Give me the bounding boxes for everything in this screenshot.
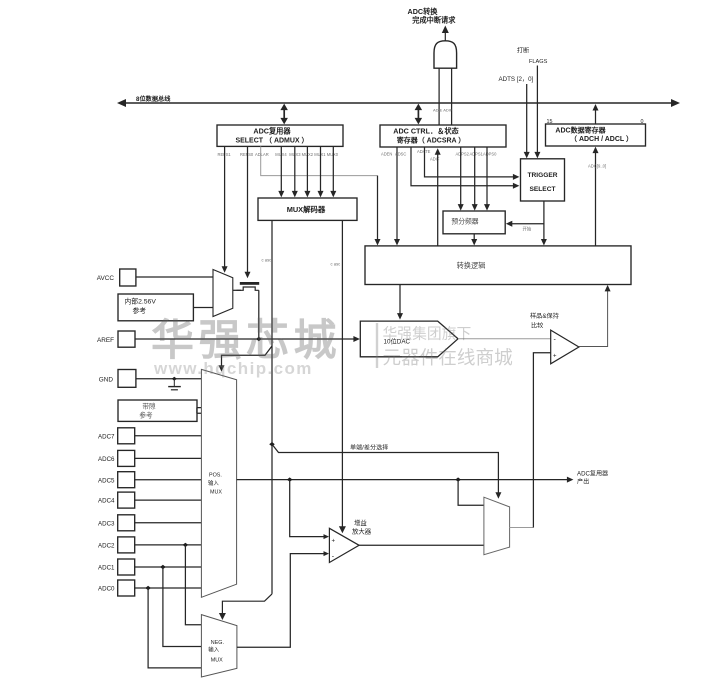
pin ADC3 box	[118, 515, 135, 531]
svg-text:ADPS2: ADPS2	[456, 152, 470, 157]
amplifier gain	[329, 528, 359, 562]
svg-text:华强芯城: 华强芯城	[151, 317, 341, 365]
wire output mux to comparator	[533, 353, 550, 528]
svg-text:-: -	[554, 337, 557, 344]
svg-text:8位数据总线: 8位数据总线	[136, 95, 171, 103]
svg-text:ADTS [2，0]: ADTS [2，0]	[499, 76, 534, 83]
wire channel selection to neg mux	[222, 594, 272, 616]
wire data register to bus	[595, 108, 597, 124]
svg-text:输入: 输入	[208, 479, 219, 487]
svg-text:www.hqchip.com: www.hqchip.com	[153, 359, 313, 378]
wire ADC6 to pos mux	[135, 457, 202, 459]
mux POS input	[201, 369, 236, 597]
wire DAC output	[458, 338, 551, 340]
wire ADC0 to neg mux	[148, 588, 201, 668]
wire ADPS0 to prescaler	[486, 147, 488, 207]
wire flags line	[536, 66, 538, 155]
svg-text:NEG.: NEG.	[211, 640, 224, 646]
wire ADIF flag	[437, 152, 439, 246]
svg-text:+: +	[332, 539, 336, 545]
svg-text:转换逻辑: 转换逻辑	[457, 261, 486, 270]
junction channel/diff	[269, 442, 275, 446]
svg-text:ADATE: ADATE	[417, 149, 431, 154]
svg-text:参考: 参考	[133, 306, 147, 315]
svg-text:打断: 打断	[517, 47, 529, 55]
wire comparator output	[579, 289, 608, 347]
wire conversion logic to DAC	[399, 285, 401, 316]
register ADCSRA box	[380, 125, 506, 147]
wire MUX2 select	[306, 146, 308, 193]
register ADCH/ADCL box	[546, 124, 646, 146]
comparator sample and hold	[551, 330, 579, 364]
svg-text:产出: 产出	[577, 478, 589, 486]
wire ADPS2 to prescaler	[460, 147, 462, 207]
wire prescaler to conversion logic	[473, 234, 475, 242]
transistor reference passgate	[240, 282, 259, 285]
svg-text:ADPS1: ADPS1	[470, 152, 484, 157]
wire channel selection lower	[271, 346, 273, 594]
wire REFS1	[224, 146, 226, 269]
svg-text:元器件在线商城: 元器件在线商城	[383, 347, 514, 368]
wire interrupt output	[444, 31, 446, 42]
wire ADC0 to pos mux	[135, 587, 202, 589]
svg-text:预分频器: 预分频器	[451, 216, 478, 225]
svg-text:（ ADCH / ADCL ）: （ ADCH / ADCL ）	[570, 135, 633, 143]
wire gain selection	[341, 220, 343, 529]
junction pos out to output mux	[455, 477, 461, 481]
wire MUX3 select	[294, 146, 296, 193]
pin ADC4 box	[118, 492, 135, 508]
wire pos mux output	[237, 479, 570, 481]
svg-text:ADC5: ADC5	[98, 477, 115, 484]
wire channel selection branch to pos mux	[222, 346, 273, 368]
svg-text:ADC3: ADC3	[98, 520, 115, 527]
wire ADC1 to pos mux	[135, 566, 202, 568]
svg-text:ADC复用器: ADC复用器	[253, 127, 291, 136]
svg-text:+: +	[553, 354, 557, 360]
pin ADC5 box	[118, 472, 135, 488]
wire neg mux output to gain minus	[237, 554, 325, 648]
svg-text:ADC7: ADC7	[98, 433, 115, 440]
svg-text:输入: 输入	[208, 646, 219, 654]
pin AREF box	[118, 331, 135, 347]
wire AND gate leg ADIF	[451, 68, 453, 125]
pin AVCC box	[120, 269, 136, 286]
svg-text:MUX: MUX	[211, 658, 223, 664]
svg-text:AVCC: AVCC	[97, 275, 115, 282]
wire ADTS line	[526, 84, 528, 155]
svg-text:c asc: c asc	[262, 258, 272, 263]
pin ADC0 box	[118, 580, 135, 596]
svg-text:增益: 增益	[354, 518, 367, 527]
svg-text:AREF: AREF	[97, 337, 114, 344]
svg-text:POS.: POS.	[209, 473, 222, 479]
svg-text:单端/差分选择: 单端/差分选择	[350, 444, 388, 452]
mux NEG input	[201, 615, 237, 677]
svg-text:比较: 比较	[531, 321, 543, 329]
svg-text:SELECT （ ADMUX ）: SELECT （ ADMUX ）	[235, 137, 308, 145]
svg-text:完成中断请求: 完成中断请求	[412, 16, 456, 25]
pin GND box	[118, 370, 136, 388]
svg-text:ADC CTRL．＆状态: ADC CTRL．＆状态	[393, 127, 459, 136]
wire reference box to mux	[193, 307, 213, 309]
block MUX decoder box	[258, 198, 357, 220]
block internal 2.56V reference box	[118, 294, 193, 321]
wire ADC5 to pos mux	[135, 479, 202, 481]
svg-text:ADIF: ADIF	[430, 157, 440, 162]
svg-text:ADC[9..0]: ADC[9..0]	[588, 164, 606, 169]
svg-text:ADC4: ADC4	[98, 498, 115, 505]
wire AREF line	[135, 338, 356, 340]
svg-text:ADPS0: ADPS0	[483, 152, 497, 157]
svg-text:MUX: MUX	[210, 490, 222, 496]
wire MUX0 select	[332, 146, 334, 193]
wire ADC4 to pos mux	[135, 499, 202, 501]
wire channel selection	[271, 220, 273, 346]
wire 8-bit data bus	[122, 102, 675, 104]
svg-text:样品&保持: 样品&保持	[530, 312, 559, 320]
junction pos out to gain	[287, 477, 293, 481]
svg-text:15: 15	[547, 119, 553, 125]
svg-text:GND: GND	[99, 377, 114, 384]
wire AND gate leg ADIE	[438, 68, 440, 125]
AND gate interrupt	[434, 41, 457, 68]
svg-text:开始: 开始	[523, 226, 532, 233]
svg-text:SELECT: SELECT	[529, 186, 555, 193]
svg-text:c asc: c asc	[331, 262, 341, 267]
block prescaler box	[443, 211, 505, 234]
svg-text:ADC0: ADC0	[98, 586, 115, 593]
wire trigger select start to prescaler	[510, 223, 544, 225]
wire REFS0	[247, 146, 249, 274]
wire reference mux output	[233, 289, 241, 291]
wire ADPS1 to prescaler	[474, 147, 476, 207]
wire MUX1 select	[320, 146, 322, 193]
wire ADSC to trigger select	[425, 147, 516, 177]
svg-text:ADIE ADIF: ADIE ADIF	[433, 108, 453, 113]
svg-text:ADC6: ADC6	[98, 456, 115, 463]
svg-text:MUX解码器: MUX解码器	[287, 205, 326, 214]
wire trigger select to conversion logic	[543, 201, 545, 242]
wire MUX4 select	[280, 146, 282, 193]
mux reference select	[213, 270, 233, 317]
wire bus-ADCSRA double arrow	[417, 107, 419, 121]
wire AVCC to reference mux	[136, 276, 213, 278]
svg-text:ADC数据寄存器: ADC数据寄存器	[555, 125, 606, 134]
wire ADEN to conversion logic	[396, 147, 398, 241]
svg-text:寄存器（ ADCSRA ）: 寄存器（ ADCSRA ）	[397, 136, 466, 145]
wire to gain amp plus	[290, 480, 326, 537]
svg-text:ADC2: ADC2	[98, 543, 115, 550]
svg-text:ADC复用器: ADC复用器	[577, 470, 608, 478]
pin ADC6 box	[118, 450, 135, 466]
block bandgap reference box	[118, 400, 197, 421]
svg-text:FLAGS: FLAGS	[529, 59, 548, 65]
wire passgate to AREF node	[258, 290, 260, 339]
wire bus-ADMUX double arrow	[283, 107, 285, 121]
dac 10-bit	[360, 321, 458, 357]
wire ADLAR	[261, 146, 378, 175]
register ADMUX box	[217, 125, 343, 146]
wire ADC7 to pos mux	[135, 435, 202, 437]
wire ADC[9:0]	[595, 150, 597, 246]
wire single/diff selection	[272, 444, 498, 495]
svg-text:TRIGGER: TRIGGER	[527, 172, 557, 179]
junction ADC0 branch	[145, 586, 151, 590]
svg-text:ADEN: ADEN	[381, 152, 392, 157]
wire ADC2 to neg mux	[185, 545, 201, 625]
svg-text:ADLAR: ADLAR	[255, 152, 269, 157]
junction ADC1 branch	[160, 565, 166, 569]
block conversion logic box	[365, 246, 631, 285]
svg-text:华强集团旗下: 华强集团旗下	[383, 326, 472, 343]
wire bandgap stub	[197, 408, 202, 414]
svg-text:参考: 参考	[139, 411, 153, 420]
wire ADC2 to pos mux	[135, 544, 202, 546]
svg-text:ADC1: ADC1	[98, 565, 115, 572]
junction ADC2 branch	[183, 543, 189, 547]
svg-text:0: 0	[641, 119, 644, 125]
block TRIGGER SELECT box	[521, 159, 565, 201]
svg-text:带隙: 带隙	[142, 402, 156, 411]
wire ADC1 to neg mux	[163, 567, 202, 647]
svg-text:放大器: 放大器	[352, 527, 372, 536]
ground symbol	[172, 377, 177, 381]
wire GND to pos mux	[136, 378, 202, 380]
svg-text:内部2.56V: 内部2.56V	[125, 297, 157, 306]
pin ADC7 box	[118, 428, 135, 444]
pin ADC2 box	[118, 537, 135, 553]
junction AREF node	[256, 337, 262, 341]
wire to output mux upper	[458, 480, 484, 506]
wire output mux out	[510, 527, 534, 529]
mux output select	[484, 497, 510, 555]
wire gain amp output	[359, 544, 484, 546]
wire ADATE to trigger select	[411, 147, 516, 185]
pin ADC1 box	[118, 559, 135, 575]
wire ADC3 to pos mux	[135, 522, 202, 524]
